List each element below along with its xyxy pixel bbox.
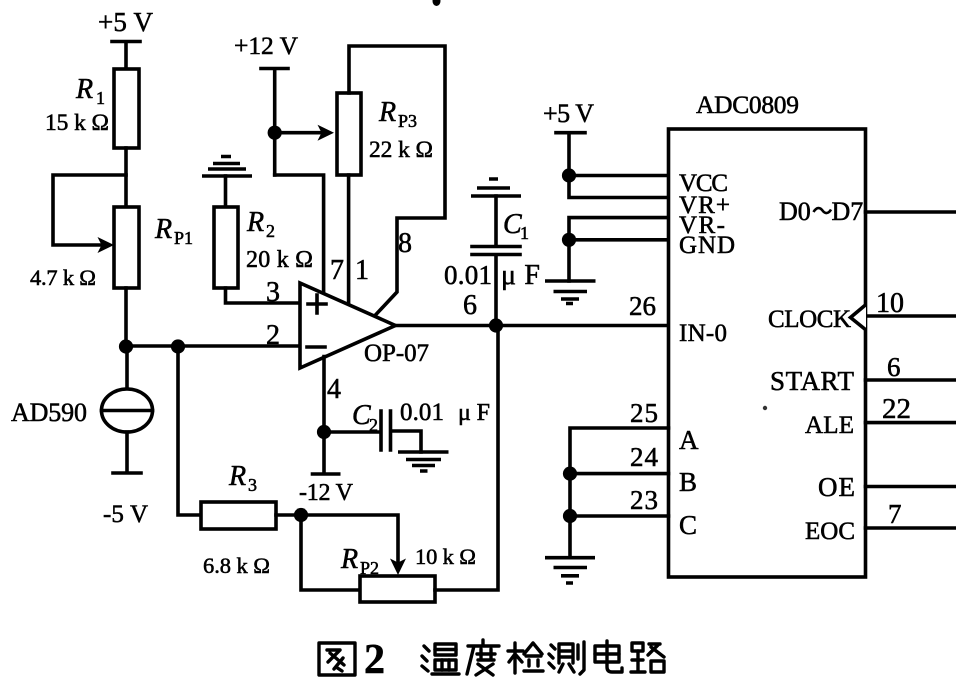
svg-text:-5 V: -5 V — [103, 501, 148, 528]
svg-text:10 k Ω: 10 k Ω — [415, 544, 476, 569]
svg-text:OP-07: OP-07 — [364, 340, 429, 367]
svg-text:GND: GND — [679, 232, 735, 259]
svg-text:P3: P3 — [398, 111, 417, 131]
svg-text:P2: P2 — [360, 558, 379, 578]
svg-text:+12 V: +12 V — [234, 31, 299, 60]
svg-text:8: 8 — [398, 228, 412, 259]
svg-text:2: 2 — [364, 637, 385, 683]
svg-text:R: R — [75, 74, 93, 105]
svg-text:P1: P1 — [174, 228, 193, 248]
svg-text:A: A — [679, 425, 699, 455]
svg-text:+5 V: +5 V — [543, 99, 594, 128]
svg-text:1: 1 — [355, 255, 369, 286]
svg-text:2: 2 — [266, 221, 275, 241]
svg-text:6.8 k Ω: 6.8 k Ω — [203, 553, 270, 578]
svg-text:24: 24 — [630, 442, 659, 472]
svg-text:R: R — [340, 544, 358, 575]
svg-text:3: 3 — [248, 475, 257, 495]
svg-text:D0: D0 — [779, 197, 811, 226]
svg-text:CLOCK: CLOCK — [768, 306, 851, 333]
svg-text:1: 1 — [96, 88, 105, 108]
svg-text:OE: OE — [818, 472, 855, 502]
svg-text:22: 22 — [882, 393, 911, 425]
svg-text:6: 6 — [463, 290, 477, 321]
svg-text:START: START — [770, 366, 855, 396]
svg-text:R: R — [378, 97, 396, 128]
svg-text:7: 7 — [888, 499, 902, 529]
svg-text:R: R — [154, 214, 172, 245]
svg-text:C: C — [679, 510, 697, 540]
svg-text:-12 V: -12 V — [299, 480, 354, 506]
svg-text:μ F: μ F — [501, 260, 540, 291]
svg-text:AD590: AD590 — [11, 398, 87, 427]
svg-text:EOC: EOC — [805, 518, 855, 545]
svg-text:R: R — [246, 207, 264, 238]
svg-text:4.7 k Ω: 4.7 k Ω — [30, 265, 96, 290]
svg-text:23: 23 — [630, 485, 658, 515]
svg-text:7: 7 — [330, 255, 344, 286]
svg-text:6: 6 — [887, 352, 901, 382]
svg-text:R: R — [228, 461, 246, 492]
svg-text:μ F: μ F — [458, 400, 490, 426]
svg-text:3: 3 — [266, 277, 280, 308]
svg-text:26: 26 — [629, 291, 656, 321]
svg-text:25: 25 — [630, 398, 658, 428]
svg-text:B: B — [679, 467, 697, 497]
svg-text:2: 2 — [266, 320, 280, 351]
svg-text:15 k Ω: 15 k Ω — [45, 110, 109, 136]
svg-text:1: 1 — [520, 223, 529, 243]
svg-text:20 k Ω: 20 k Ω — [246, 247, 313, 273]
svg-text:10: 10 — [876, 288, 904, 319]
svg-text:IN-0: IN-0 — [679, 320, 727, 347]
svg-text:ADC0809: ADC0809 — [696, 90, 799, 119]
svg-text:4: 4 — [327, 374, 341, 405]
svg-text:ALE: ALE — [805, 412, 854, 439]
svg-text:0.01: 0.01 — [400, 399, 444, 426]
svg-text:+5 V: +5 V — [98, 7, 154, 37]
svg-text:22 k Ω: 22 k Ω — [369, 137, 433, 163]
svg-text:2: 2 — [369, 415, 378, 435]
svg-text:0.01: 0.01 — [444, 260, 492, 290]
svg-text:D7: D7 — [832, 197, 864, 226]
